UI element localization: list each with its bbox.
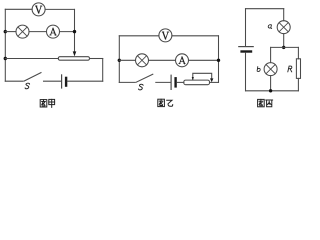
wire: battery to bottom-right corner bbox=[67, 80, 102, 82]
wire: bing parallel top rail bbox=[271, 46, 299, 48]
voltmeter V (jia) bbox=[32, 3, 45, 16]
battery B2 (yi) long plate bbox=[170, 75, 172, 89]
voltmeter V (yi) bbox=[159, 29, 172, 42]
node: yi left junction row2 bbox=[118, 59, 121, 62]
switch S (yi) lever bbox=[136, 74, 153, 82]
glyph jia (caption) bbox=[49, 99, 55, 107]
wire: jia left vertical rail bbox=[4, 9, 6, 81]
resistor R body (bing) bbox=[296, 59, 300, 79]
wire: yi battery to rheostat bbox=[177, 81, 184, 83]
wire: row2 ammeter to right rail bbox=[60, 31, 75, 33]
wire: yi row2 left rail to lamp bbox=[119, 59, 135, 61]
node: jia left junction row3 bbox=[4, 57, 7, 60]
wire: yi top rail left segment bbox=[119, 35, 159, 37]
wire: jia top rail right segment bbox=[45, 8, 74, 10]
wire: bing top-right vertical to lamp a bbox=[283, 9, 285, 21]
glyph bing (caption) bbox=[266, 100, 273, 107]
ammeter A (jia) bbox=[47, 25, 60, 38]
wire: bing bottom rail bbox=[246, 90, 299, 92]
glyph tu (jia caption) bbox=[40, 100, 47, 107]
wire: bing left branch upper (to lamp b) bbox=[270, 47, 272, 62]
battery B1 (jia) short thick plate bbox=[65, 78, 67, 86]
wire: row3 from left rail to rheostat bbox=[5, 58, 58, 60]
wire: jia top rail left segment bbox=[5, 8, 32, 10]
switch S (jia) lever bbox=[24, 73, 41, 81]
label S (yi switch) bbox=[139, 84, 144, 90]
battery B3 (bing) long plate bbox=[239, 46, 253, 48]
wire: yi left vertical rail bbox=[118, 36, 120, 83]
wire: yi row2 lamp to ammeter bbox=[149, 59, 176, 61]
label b (bing lamp) bbox=[257, 67, 260, 72]
wire: bing left branch lower bbox=[270, 76, 272, 91]
lamp L2 (yi bulb) bbox=[136, 54, 149, 67]
label S (jia switch) bbox=[25, 83, 30, 89]
wire: lamp a to parallel node bbox=[283, 34, 285, 48]
glyph tu (yi caption) bbox=[158, 99, 165, 106]
glyph yi (caption) bbox=[167, 100, 173, 106]
rheostat R2 body (yi) bbox=[184, 80, 210, 85]
wire: jia right vertical (top rail to slider arrow) bbox=[74, 9, 76, 51]
wire: rheostat right terminal bbox=[90, 58, 103, 60]
node: bing bottom junction (lamp b branch) bbox=[269, 89, 272, 92]
ammeter A (yi) bbox=[176, 54, 189, 67]
wire: yi top rail right segment bbox=[172, 35, 219, 37]
wire: yi right vertical rail bbox=[218, 36, 220, 83]
lamp a (bing) bbox=[277, 21, 290, 34]
battery B2 (yi) short thick plate bbox=[174, 78, 176, 86]
wire: row2 lamp to ammeter bbox=[29, 31, 47, 33]
label R (bing resistor) bbox=[288, 66, 292, 72]
battery B3 (bing) short thick plate bbox=[242, 50, 251, 52]
node: yi right junction row2 bbox=[217, 59, 220, 62]
wire: bing top rail bbox=[246, 8, 284, 10]
wire: bing left vertical lower (battery to bottom rail) bbox=[245, 53, 247, 91]
rheostat R2 arm terminal arrowhead bbox=[210, 78, 213, 82]
wire: yi switch to battery bbox=[156, 81, 171, 83]
label: caption tu-bing bbox=[258, 99, 273, 106]
wire: jia right outer vertical bbox=[102, 59, 104, 82]
rheostat R2 slider arm bbox=[193, 73, 212, 79]
wire: jia bottom rail to switch bbox=[5, 80, 23, 82]
wire: switch to battery bbox=[44, 80, 62, 82]
battery B1 (jia) long plate bbox=[61, 75, 63, 88]
node: bing parallel top junction bbox=[282, 46, 285, 49]
glyph tu (bing caption) bbox=[258, 99, 265, 106]
wire: yi bottom rail to switch bbox=[119, 81, 135, 83]
node: jia right junction row2 bbox=[73, 30, 76, 33]
lamp b (bing) bbox=[264, 63, 277, 76]
wire: yi row2 ammeter to right rail bbox=[189, 59, 219, 61]
rheostat R2 slider contact arrowhead bbox=[192, 77, 194, 80]
wire: yi rheostat right terminal bbox=[210, 81, 219, 83]
wire: bing left vertical upper (top rail to battery) bbox=[245, 9, 247, 46]
rheostat R1 body (jia) bbox=[58, 57, 89, 61]
wire: bing right branch lower bbox=[297, 78, 299, 90]
label a (bing lamp) bbox=[268, 25, 272, 29]
label: caption tu-yi bbox=[158, 99, 173, 106]
rheostat slider arrowhead (jia) bbox=[73, 51, 77, 56]
wire: row2 from left rail to lamp bbox=[5, 31, 16, 33]
lamp L1 (jia bulb) bbox=[16, 25, 29, 38]
wire: bing right branch upper (to resistor R) bbox=[297, 47, 299, 58]
node: jia left junction row2 bbox=[4, 30, 7, 33]
label: caption tu-jia bbox=[40, 99, 54, 107]
